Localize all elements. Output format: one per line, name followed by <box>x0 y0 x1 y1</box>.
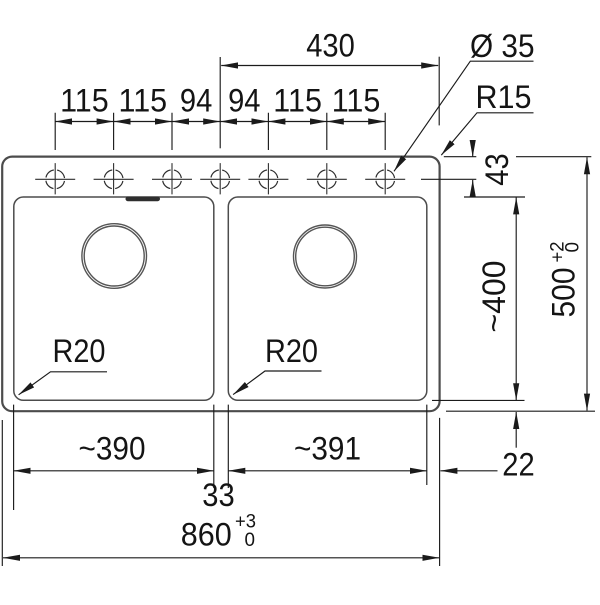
svg-text:22: 22 <box>502 446 534 482</box>
dim ~400 line <box>515 197 517 400</box>
svg-text:94: 94 <box>228 83 260 119</box>
svg-text:500: 500 <box>546 268 582 318</box>
hole centre extension line to dim 43 <box>421 178 476 180</box>
dim 500 line <box>586 157 588 410</box>
right bowl outline <box>228 197 426 400</box>
svg-text:33: 33 <box>202 477 234 513</box>
dim 430 extension right <box>438 57 440 126</box>
dim 43 arrows (outside) <box>472 141 474 157</box>
dim 860 line <box>3 557 439 559</box>
hole chain extension lines <box>55 113 385 150</box>
hole chain dimension lines <box>55 121 113 123</box>
svg-text:~400: ~400 <box>476 261 512 333</box>
label 500 tolerance +2/0 (rotated) <box>548 242 584 263</box>
svg-text:R20: R20 <box>53 333 106 369</box>
bowl bottom extension line <box>432 399 525 401</box>
svg-text:0: 0 <box>563 242 584 253</box>
dim 22 vertical arrow <box>515 412 517 448</box>
svg-text:115: 115 <box>60 83 109 119</box>
svg-text:0: 0 <box>245 530 256 551</box>
overflow slot on left bowl <box>126 197 161 202</box>
label 860 tolerance +3/0 <box>235 512 256 552</box>
svg-text:115: 115 <box>332 83 381 119</box>
dim 430 line <box>221 65 438 67</box>
dim ~391 line <box>228 470 426 472</box>
dim 860 left extension <box>1 420 3 566</box>
svg-text:115: 115 <box>119 83 168 119</box>
bottom extension lines <box>14 405 440 566</box>
dim 430 extension left / hole4 centre line <box>219 57 221 148</box>
svg-text:430: 430 <box>306 27 355 63</box>
svg-text:~391: ~391 <box>294 430 361 466</box>
dim ~390 line <box>14 470 214 472</box>
svg-text:43: 43 <box>479 153 515 185</box>
svg-text:R20: R20 <box>265 333 318 369</box>
sink top edge extension lines <box>444 156 592 158</box>
svg-text:94: 94 <box>180 83 212 119</box>
bowl top extension line <box>464 196 525 198</box>
svg-text:R15: R15 <box>476 79 532 115</box>
leader R20 left <box>19 372 107 395</box>
svg-text:115: 115 <box>273 83 322 119</box>
leader R15 <box>441 113 533 155</box>
leader R20 right <box>233 371 321 395</box>
tap holes (7x Ø35 with centre crosses) <box>35 163 405 194</box>
left bowl drain circles <box>82 224 147 289</box>
svg-text:~390: ~390 <box>79 430 146 466</box>
dim 22 horizontal arrow <box>440 470 497 472</box>
left bowl outline <box>14 197 214 400</box>
leader Ø35 <box>394 61 534 171</box>
svg-text:860: 860 <box>181 516 232 552</box>
sink bottom extension line <box>446 410 595 412</box>
sink outer outline <box>2 157 439 412</box>
svg-text:Ø 35: Ø 35 <box>470 28 535 64</box>
right bowl drain circles <box>294 225 357 288</box>
